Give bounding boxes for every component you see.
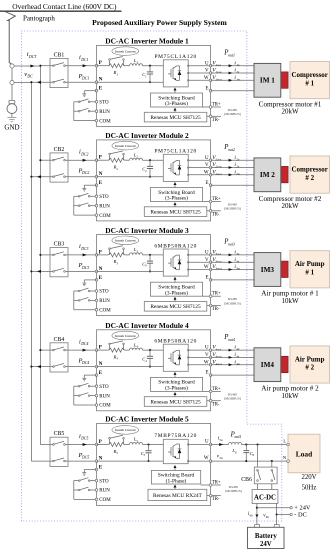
label V_2v xyxy=(212,162,222,169)
output wire phase w module 2 xyxy=(211,174,254,176)
svg-text:CB3: CB3 xyxy=(54,242,65,248)
induction motor IM2 xyxy=(254,158,281,192)
label i_4w xyxy=(234,359,240,366)
control switch STO module 4 xyxy=(74,383,95,387)
svg-text:V: V xyxy=(205,353,209,358)
terminal N load xyxy=(283,455,289,462)
return arrow module 1 xyxy=(37,81,41,84)
tap 24V positive xyxy=(257,505,311,512)
arrow i_2u xyxy=(229,159,233,162)
label v_bat xyxy=(263,514,269,519)
terminal RUN module 1 xyxy=(95,110,110,115)
svg-text:220V: 220V xyxy=(301,474,316,481)
svg-text:TR+: TR+ xyxy=(212,197,221,202)
label C1 xyxy=(142,72,147,78)
svg-text:# 1: # 1 xyxy=(305,79,314,87)
junction on positive DC bus module 3 xyxy=(39,254,41,256)
label RS485 MODBUS module 4 xyxy=(224,392,241,400)
svg-text:DC-AC Inverter Module 2: DC-AC Inverter Module 2 xyxy=(105,131,189,140)
inductor L3 xyxy=(130,253,143,255)
MCU board Renesas MCU SH7125 module 1 xyxy=(144,112,207,122)
terminal COM module 3 xyxy=(95,309,111,314)
svg-text:RUN: RUN xyxy=(99,394,110,399)
svg-text:U: U xyxy=(205,156,209,161)
svg-text:IM 2: IM 2 xyxy=(260,171,275,179)
svg-text:W: W xyxy=(204,170,209,175)
svg-text:TR-: TR- xyxy=(212,402,220,407)
svg-text:V: V xyxy=(205,163,209,168)
svg-text:DC4: DC4 xyxy=(80,342,88,346)
AC-DC converter xyxy=(252,490,278,504)
arrow i_5a xyxy=(219,443,223,446)
terminal E module 4 xyxy=(95,371,103,376)
terminal E right module 2 xyxy=(206,181,212,187)
wire P inside module 3 xyxy=(97,254,164,256)
earth stub at E module 2 xyxy=(82,185,96,191)
label i_5a xyxy=(218,435,223,441)
load box 220V xyxy=(288,434,320,473)
circuit breaker CB2 xyxy=(50,153,68,182)
label V_3v xyxy=(212,257,222,264)
control switch STO module 2 xyxy=(74,193,95,197)
wire V phase module 3 xyxy=(188,261,210,263)
label i_3w xyxy=(234,264,240,271)
wire V phase module 2 xyxy=(188,167,210,169)
label i_2u xyxy=(234,155,239,162)
label V_3u xyxy=(212,250,221,257)
svg-text:2w-u: 2w-u xyxy=(215,172,222,176)
inductor L5 xyxy=(130,442,143,444)
current arrow i_DC3 xyxy=(83,253,87,256)
svg-text:RUN: RUN xyxy=(99,299,110,304)
wire W phase module 2 xyxy=(188,174,210,176)
output wire phase u module 1 xyxy=(211,65,254,67)
system boundary dashed box xyxy=(21,31,281,521)
load box module 2 xyxy=(290,156,330,193)
svg-text:DC3: DC3 xyxy=(80,247,88,251)
junction on negative DC bus module 4 xyxy=(30,366,32,368)
terminal V module 1 xyxy=(205,69,212,75)
svg-text:CB6: CB6 xyxy=(241,477,252,483)
circuit breaker CB4 xyxy=(50,343,68,372)
svg-text:Inrush Current: Inrush Current xyxy=(115,49,136,53)
svg-text:out4: out4 xyxy=(228,338,235,342)
svg-text:PM75CL1A120: PM75CL1A120 xyxy=(154,149,196,155)
label C6 xyxy=(250,451,255,457)
terminal STO module 2 xyxy=(95,195,109,200)
svg-text:out5: out5 xyxy=(234,435,241,439)
earth stub at E module 3 xyxy=(82,280,96,286)
svg-text:STO: STO xyxy=(99,290,109,295)
label C3 xyxy=(142,261,147,267)
svg-text:DC2: DC2 xyxy=(81,171,89,175)
svg-text:- DC: - DC xyxy=(294,512,307,519)
MCU to switching board arrow module 1 xyxy=(174,108,177,113)
terminal L load xyxy=(283,438,289,446)
caption 220V 50Hz xyxy=(301,474,316,492)
label V_3w xyxy=(212,264,222,271)
IGBT power module PM75CL1A120 of module 2 xyxy=(163,154,188,181)
terminal P module 1 xyxy=(95,61,102,67)
label V_1w xyxy=(212,75,222,82)
terminal U module 1 xyxy=(205,61,212,67)
battery current arrow xyxy=(255,515,258,518)
svg-text:1u: 1u xyxy=(236,63,240,67)
wire positive from node xyxy=(14,65,40,67)
shaft coupling module 4 xyxy=(282,356,289,372)
arrow i_3w xyxy=(229,268,233,271)
IGBT power module PM75CL1A120 of module 1 xyxy=(163,60,188,87)
pins U V W of power module 2 xyxy=(187,159,189,175)
switching board module 5 xyxy=(151,470,200,484)
label L1 xyxy=(133,58,139,64)
junction on positive DC bus module 2 xyxy=(39,159,41,161)
wire battery negative xyxy=(276,503,278,524)
svg-text:U: U xyxy=(205,440,209,445)
svg-text:DC4: DC4 xyxy=(81,361,89,365)
arrow i_4w xyxy=(229,363,233,366)
inductor L1 xyxy=(130,64,143,66)
circuit breaker CB3 xyxy=(50,248,68,277)
terminal TR- module 2 xyxy=(207,210,221,218)
svg-text:# 2: # 2 xyxy=(305,364,314,372)
label P_out5 xyxy=(230,431,242,439)
switching board module 1 xyxy=(150,93,202,107)
gate drive arrow module 1 xyxy=(174,88,177,94)
current arrow i_DC1 xyxy=(83,64,87,67)
svg-text:IM 1: IM 1 xyxy=(260,77,275,85)
label V_1u xyxy=(212,60,221,67)
output wire phase u module 4 xyxy=(211,349,254,351)
shaft coupling module 3 xyxy=(282,261,289,277)
svg-text:(MODBUS): (MODBUS) xyxy=(224,207,241,211)
svg-text:Inrush Current: Inrush Current xyxy=(115,428,136,432)
label RS485 MODBUS module 1 xyxy=(224,108,241,116)
capacitor C4 xyxy=(147,349,153,368)
inrush bypass switch module 3 xyxy=(109,246,125,255)
earth stub at E module 5 xyxy=(82,470,96,476)
label i_DC3 xyxy=(79,243,88,251)
svg-text:TR-: TR- xyxy=(212,307,220,312)
svg-text:out2: out2 xyxy=(228,148,235,152)
wire W phase module 4 xyxy=(188,364,210,366)
wire N inside module 2 xyxy=(97,176,164,178)
terminal N module 1 xyxy=(95,78,103,84)
filter inductor L6 xyxy=(229,442,242,444)
label i_4v xyxy=(234,352,239,359)
label C4 xyxy=(142,357,147,363)
svg-text:COM: COM xyxy=(99,404,111,409)
label P_DC5 xyxy=(78,452,90,460)
svg-text:RUN: RUN xyxy=(99,204,110,209)
terminal STO module 5 xyxy=(95,479,109,484)
svg-text:4v-w: 4v-w xyxy=(215,355,222,359)
svg-text:(3-Phases): (3-Phases) xyxy=(165,289,188,296)
svg-text:AC-DC: AC-DC xyxy=(254,495,276,502)
label P_DC4 xyxy=(78,357,90,365)
output wire phase v module 4 xyxy=(211,356,254,358)
svg-text:3u: 3u xyxy=(236,252,240,256)
svg-text:(MODBUS): (MODBUS) xyxy=(224,301,241,305)
svg-text:STO: STO xyxy=(99,385,109,390)
gate drive arrow module 4 xyxy=(174,372,177,378)
label P_DC2 xyxy=(78,167,90,175)
switching board module 3 xyxy=(150,282,202,296)
wire COM bus module 2 xyxy=(74,196,95,215)
terminal P module 2 xyxy=(95,156,102,162)
svg-text:CB2: CB2 xyxy=(54,147,65,153)
return arrow module 3 xyxy=(37,270,41,273)
svg-text:DC1: DC1 xyxy=(80,58,88,62)
svg-text:2v-w: 2v-w xyxy=(215,165,222,169)
label PM75CL1A120 xyxy=(154,54,196,60)
wire P inside module 2 xyxy=(97,159,164,161)
svg-text:CB4: CB4 xyxy=(54,337,65,343)
current arrow i_DCT xyxy=(30,65,34,68)
induction motor IM4 xyxy=(254,348,281,382)
terminal P module 3 xyxy=(95,250,102,256)
arrow i_1w xyxy=(229,79,233,82)
MCU to switching board arrow module 5 xyxy=(174,485,177,490)
svg-text:4u-v: 4u-v xyxy=(215,347,221,351)
MCU board Renesas MCU RX24T xyxy=(148,489,207,500)
arrow i_2w xyxy=(229,173,233,176)
svg-text:TR-: TR- xyxy=(212,497,220,502)
caption motor 2 xyxy=(259,195,322,210)
label 6MBP50RA120 xyxy=(154,339,197,345)
junction on negative DC bus module 3 xyxy=(30,270,32,272)
arrow i_3u xyxy=(229,254,233,257)
pins U V W of power module 3 xyxy=(187,254,189,270)
svg-text:COM: COM xyxy=(99,498,111,503)
terminal W module 5 xyxy=(204,456,212,462)
svg-text:E: E xyxy=(206,371,209,376)
svg-text:5a: 5a xyxy=(219,438,223,442)
output wire L module 5 xyxy=(211,444,288,446)
label i_1u xyxy=(234,60,239,67)
title DC-AC Inverter Module 2 xyxy=(105,131,189,140)
terminal E module 2 xyxy=(95,181,103,186)
title DC-AC Inverter Module 3 xyxy=(105,226,189,235)
MCU to switching board arrow module 2 xyxy=(174,202,177,207)
label 7MBP75RA120 xyxy=(154,433,197,439)
inrush bypass switch module 2 xyxy=(109,151,125,160)
terminal TR+ module 4 xyxy=(203,387,221,393)
terminal STO module 3 xyxy=(95,290,109,295)
svg-text:2u-v: 2u-v xyxy=(215,157,221,161)
svg-text:DC2: DC2 xyxy=(80,152,88,156)
inrush bypass switch module 1 xyxy=(109,57,125,66)
svg-text:(3-Phases): (3-Phases) xyxy=(165,385,188,392)
label Inrush Current module 2 xyxy=(112,141,139,150)
svg-text:1u-v: 1u-v xyxy=(215,63,221,67)
label CB3 xyxy=(54,242,65,248)
svg-text:Compressor: Compressor xyxy=(291,71,327,79)
terminal TR- module 5 xyxy=(207,494,221,502)
label Inrush Current module 5 xyxy=(112,426,139,435)
svg-text:IM3: IM3 xyxy=(261,266,275,274)
label R1 xyxy=(113,70,119,76)
svg-text:# 2: # 2 xyxy=(305,174,314,182)
label V_4v xyxy=(212,352,222,359)
svg-text:(3-Phases): (3-Phases) xyxy=(165,100,188,107)
svg-text:TR-: TR- xyxy=(212,118,220,123)
svg-text:DC5: DC5 xyxy=(81,456,89,460)
arrow i_1u xyxy=(229,64,233,67)
terminal N module 4 xyxy=(95,362,103,368)
svg-text:E: E xyxy=(206,276,209,281)
terminal TR+ module 1 xyxy=(203,102,221,108)
svg-text:7MBP75RA120: 7MBP75RA120 xyxy=(154,433,197,439)
MCU to switching board arrow module 3 xyxy=(174,297,177,302)
filter capacitor C6 xyxy=(243,443,249,462)
wire COM bus module 4 xyxy=(74,386,95,405)
svg-text:2u: 2u xyxy=(236,157,240,161)
caption motor 3 xyxy=(261,290,319,305)
svg-text:10kW: 10kW xyxy=(281,392,299,400)
ground symbol xyxy=(7,117,16,121)
terminal COM module 4 xyxy=(95,404,111,409)
gate drive arrow module 2 xyxy=(174,182,177,188)
terminal STO module 1 xyxy=(95,101,109,106)
label R3 xyxy=(113,259,119,265)
control switch STO module 1 xyxy=(74,99,95,103)
wire P inside module 1 xyxy=(97,65,164,67)
earth stub at E module 1 xyxy=(82,91,96,97)
terminal W module 1 xyxy=(204,76,212,82)
title DC-AC Inverter Module 4 xyxy=(105,321,189,330)
svg-text:W: W xyxy=(204,360,209,365)
output wire phase w module 3 xyxy=(211,269,254,271)
label L2 xyxy=(133,152,139,158)
wire N return module 5 xyxy=(31,460,96,462)
svg-text:CB5: CB5 xyxy=(54,431,65,437)
earth wire to motor 1 xyxy=(211,90,254,92)
label i_DCT xyxy=(27,51,37,59)
wire U phase module 4 xyxy=(188,349,210,351)
wire between input nodes xyxy=(11,68,13,80)
terminal P module 4 xyxy=(95,346,102,352)
capacitor C1 xyxy=(147,65,153,84)
wire W phase module 1 xyxy=(188,79,210,81)
load box module 3 xyxy=(290,251,330,288)
inverter module 4 enclosure xyxy=(97,330,211,411)
output wire phase v module 2 xyxy=(211,167,254,169)
title Proposed Auxiliary Power Supply System xyxy=(92,18,227,27)
svg-text:DC1: DC1 xyxy=(81,77,89,81)
label V_4u xyxy=(212,345,221,352)
wire N return module 2 xyxy=(31,176,96,178)
circuit breaker CB6 xyxy=(254,443,277,489)
label P_out3 xyxy=(223,239,235,247)
svg-text:3u-v: 3u-v xyxy=(215,252,221,256)
label i_DC1 xyxy=(79,54,88,62)
pins U V W of power module 4 xyxy=(187,349,189,365)
label v_DC xyxy=(24,71,33,79)
svg-text:U: U xyxy=(205,251,209,256)
svg-text:U: U xyxy=(205,346,209,351)
svg-text:Renesas MCU SH7125: Renesas MCU SH7125 xyxy=(150,399,201,405)
terminal E right module 1 xyxy=(206,86,212,92)
svg-text:out1: out1 xyxy=(228,53,235,57)
svg-text:(1-Phase): (1-Phase) xyxy=(166,478,187,485)
induction motor IM1 xyxy=(254,63,281,97)
wire V phase module 1 xyxy=(188,72,210,74)
terminal W module 4 xyxy=(204,360,212,366)
svg-text:6b: 6b xyxy=(250,513,254,517)
inverter module 1 enclosure xyxy=(97,45,211,126)
label GND xyxy=(4,124,19,132)
svg-text:COM: COM xyxy=(99,214,111,219)
svg-text:Inrush Current: Inrush Current xyxy=(115,144,136,148)
terminal U module 3 xyxy=(205,251,212,257)
svg-text:DC-AC Inverter Module 4: DC-AC Inverter Module 4 xyxy=(105,321,189,330)
terminal TR+ module 5 xyxy=(201,480,221,486)
pantograph xyxy=(5,12,15,65)
terminal COM module 2 xyxy=(95,214,111,219)
label P_DC3 xyxy=(78,262,90,270)
terminal E right module 4 xyxy=(206,371,212,377)
svg-text:10kW: 10kW xyxy=(281,297,299,305)
circuit breaker CB5 xyxy=(50,437,68,466)
wire negative from node xyxy=(14,82,31,84)
svg-text:DCT: DCT xyxy=(28,55,37,59)
terminal U module 4 xyxy=(205,346,212,352)
junction on negative DC bus module 1 xyxy=(30,81,32,83)
svg-text:20kW: 20kW xyxy=(281,108,299,116)
terminal N module 3 xyxy=(95,267,103,273)
wire U phase module 5 xyxy=(188,444,210,446)
wire W phase module 3 xyxy=(188,269,210,271)
inrush bypass switch module 4 xyxy=(109,341,125,350)
overhead contact line xyxy=(0,10,122,12)
label P_out2 xyxy=(223,144,235,152)
wire COM bus module 3 xyxy=(74,291,95,310)
wire U phase module 3 xyxy=(188,254,210,256)
output wire phase u module 2 xyxy=(211,159,254,161)
pins U W of power module 5 xyxy=(187,444,189,462)
label RS485 MODBUS module 5 xyxy=(225,485,242,493)
label RS485 MODBUS module 3 xyxy=(224,297,241,305)
svg-text:COM: COM xyxy=(99,309,111,314)
svg-text:V: V xyxy=(205,258,209,263)
MCU board Renesas MCU SH7125 module 3 xyxy=(144,302,207,312)
svg-text:6MBP50RA120: 6MBP50RA120 xyxy=(154,339,197,345)
svg-text:Battery: Battery xyxy=(255,533,277,540)
switching board module 4 xyxy=(150,377,202,391)
svg-text:Compressor: Compressor xyxy=(291,165,327,173)
capacitor C3 xyxy=(147,254,153,273)
svg-text:W: W xyxy=(204,456,209,461)
label i_DC2 xyxy=(79,149,88,157)
terminal N module 5 xyxy=(95,457,103,463)
label 6MBP50RA120 xyxy=(154,243,197,249)
svg-text:TR+: TR+ xyxy=(212,387,221,392)
svg-text:5a: 5a xyxy=(219,456,223,460)
label P_DC1 xyxy=(78,73,90,81)
induction motor IM3 xyxy=(254,253,281,287)
label R5 xyxy=(113,449,119,455)
title DC-AC Inverter Module 1 xyxy=(105,37,189,46)
junction on positive DC bus module 4 xyxy=(39,349,41,351)
svg-text:RUN: RUN xyxy=(99,489,110,494)
wire P feed module 1 xyxy=(40,65,96,67)
svg-text:6b: 6b xyxy=(266,515,270,519)
IGBT power module 7MBP75RA120 xyxy=(163,439,188,463)
svg-text:IM4: IM4 xyxy=(261,361,275,369)
capacitor C2 xyxy=(147,159,153,178)
tap 24V negative xyxy=(277,512,307,519)
